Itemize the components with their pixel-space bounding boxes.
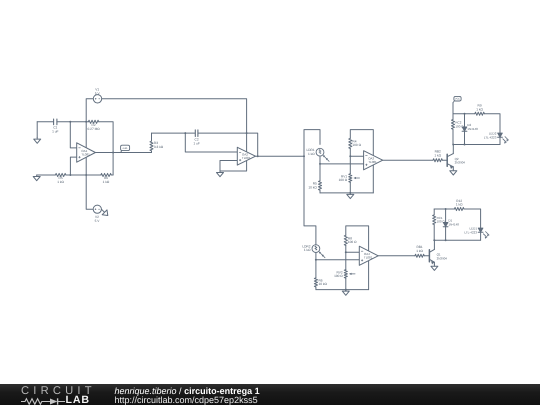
wire OA1 non-inverting input (70, 157, 76, 175)
CircuitLab logo text LAB (66, 394, 90, 405)
junction dots LED1 block (433, 208, 446, 241)
wire staple R8 top + OA4 V pins (346, 226, 369, 290)
junction dot C2 branch (184, 132, 186, 134)
wire top integrator left (152, 132, 195, 134)
wire R2 right lead down to output node (99, 122, 113, 175)
op-amp OA3 (364, 151, 383, 170)
svg-text:1 kΩ: 1 kΩ (304, 248, 311, 252)
capacitor C1 (52, 119, 58, 133)
wire RV2 to bottom (345, 278, 347, 289)
svg-text:1 kΩ: 1 kΩ (416, 249, 423, 253)
resistor RC1 vertical (433, 209, 446, 240)
svg-text:1N4148: 1N4148 (467, 127, 478, 131)
resistor R12 (454, 199, 464, 211)
photoresistor LDR2 (302, 244, 325, 257)
wire top LED1 left (434, 208, 454, 210)
resistor RC2 vertical (451, 114, 464, 145)
resistor R2 (88, 120, 101, 131)
svg-text:TL081: TL081 (242, 156, 251, 160)
junction dot bottom block5 (345, 289, 347, 291)
junction dots OA2 output (246, 132, 305, 157)
wire rail up to LDR1 (304, 130, 320, 157)
resistor R6 (101, 173, 112, 184)
svg-text:2N3904: 2N3904 (437, 256, 448, 260)
junction dot LDR2 node (315, 259, 317, 261)
wire LDR1 to plus input OA3 (320, 156, 364, 164)
svg-text:100 Ω: 100 Ω (334, 274, 343, 278)
svg-text:1 kΩ: 1 kΩ (308, 152, 315, 156)
wire LDR2 to plus input OA4 (316, 253, 359, 260)
svg-text:100 Ω: 100 Ω (348, 240, 357, 244)
svg-text:1 kΩ: 1 kΩ (456, 203, 463, 207)
resistor R8 vertical (344, 235, 357, 245)
svg-text:TL081: TL081 (364, 256, 373, 260)
transistor Q2 (447, 145, 465, 170)
wire RV1 to bottom (349, 182, 351, 193)
op-amp OA2 (237, 147, 255, 165)
potentiometer RV1 (339, 174, 360, 183)
resistor R3 vertical (150, 133, 164, 152)
svg-text:10 kΩ: 10 kΩ (308, 185, 317, 189)
svg-text:1 kΩ: 1 kΩ (476, 107, 483, 111)
wire bottom block5 (316, 289, 369, 291)
junction dots LED2 block (452, 113, 465, 146)
junction dots bottom wire (69, 174, 87, 176)
wire OA4 inverting input (346, 251, 360, 253)
svg-text:1 kΩ: 1 kΩ (434, 153, 441, 157)
svg-text:3.3 kΩ: 3.3 kΩ (154, 145, 164, 149)
CircuitLab logo text CIRCUIT (21, 385, 96, 397)
resistor RB2 (433, 150, 442, 162)
wire R6 to corner up (111, 174, 113, 176)
LED2 (484, 132, 509, 144)
junction dot LDR1 node (319, 163, 321, 165)
diode D2 (462, 114, 478, 145)
wire OA1 inverting input (70, 122, 76, 148)
wire R5 to R6 (66, 174, 101, 176)
wire staple R4 top + OA3 V pins (350, 130, 373, 193)
wire R4 to RV1 (349, 149, 351, 174)
wire OA2 inverting input (185, 133, 237, 152)
resistor R5 (55, 173, 66, 184)
svg-text:1 uF: 1 uF (193, 141, 199, 145)
resistor R5b vertical (308, 164, 321, 193)
ground G7 block5 (342, 290, 349, 296)
footer author / title line (115, 386, 260, 396)
transistor Q1 (429, 240, 447, 265)
svg-text:out1: out1 (123, 147, 129, 150)
ground G5 block3 (347, 193, 354, 199)
wire OA2 V+ pin (246, 133, 248, 152)
wire top integrator right + feedback to output (198, 133, 258, 156)
wire C1 left lead (37, 121, 53, 123)
ground G3 right of V2 (rotated) (101, 209, 107, 215)
wire RB2 to Q2 base (442, 159, 447, 161)
svg-text:TL081: TL081 (81, 152, 90, 156)
footer url line (115, 395, 258, 405)
svg-text:2N3904: 2N3904 (455, 161, 466, 165)
ground G8 below Q1 (431, 265, 438, 271)
junction dot output/feedback (112, 152, 114, 154)
resistor R4 vertical (349, 138, 362, 148)
wire top LED1 right + LED rail (464, 209, 481, 240)
resistor RB1 (415, 245, 424, 257)
svg-text:1N4148: 1N4148 (448, 222, 459, 226)
junction dot OA3 minus node (349, 155, 351, 157)
wire bottom block3 (320, 192, 373, 194)
svg-text:100 Ω: 100 Ω (352, 143, 361, 147)
capacitor C2 (193, 130, 199, 146)
wire OA2 output (256, 155, 305, 157)
wire to V2 (86, 175, 93, 209)
op-amp OA1 (77, 143, 96, 162)
wire bottom LED1 (434, 239, 480, 241)
svg-text:1 kΩ: 1 kΩ (57, 180, 64, 184)
svg-text:LTL-4223: LTL-4223 (484, 135, 497, 139)
junction dots inverting node (69, 121, 87, 123)
wire C1 right lead to R2 (inverting node) (57, 121, 88, 123)
diode D1 (443, 209, 459, 240)
ground G1 below C1 left end (34, 122, 41, 144)
svg-text:1 kΩ: 1 kΩ (103, 180, 110, 184)
wire RB1 to Q1 base (424, 255, 429, 257)
ground G4 below OA2 plus input (217, 171, 224, 177)
svg-text:10 kΩ: 10 kΩ (319, 282, 328, 286)
resistor R9 (475, 104, 485, 116)
CircuitLab logo resistor-diode squiggle (21, 397, 65, 405)
wire OA3 inverting input (350, 155, 363, 157)
svg-text:5 V: 5 V (95, 219, 101, 223)
resistor R6b vertical (314, 260, 327, 290)
wire OA2 non-inverting input + ground tie (220, 161, 247, 172)
svg-text:1 uF: 1 uF (52, 129, 58, 133)
svg-text:100 Ω: 100 Ω (339, 178, 348, 182)
junction dot OA4 minus node (345, 251, 347, 253)
wire top LED2 left (453, 113, 475, 115)
junction dot bottom block3 (349, 192, 351, 194)
wire OA1 power pins vertical (85, 122, 87, 175)
photoresistor LDR1 (306, 148, 329, 161)
ground G2 bottom left (33, 175, 40, 181)
wire OA4 output (378, 255, 415, 257)
wire rail down to LDR2 (304, 156, 316, 245)
op-amp OA4 (359, 246, 378, 265)
wire top rail from node A to OA2 V+ corner (86, 99, 246, 133)
wire top LED2 right + LED rail (484, 114, 500, 145)
flag VCC (453, 96, 461, 113)
svg-text:VCC: VCC (455, 98, 460, 101)
potentiometer RV2 (334, 270, 355, 279)
flag out1 on OA1 output (121, 145, 130, 152)
LED1 (464, 227, 489, 239)
svg-text:TL081: TL081 (368, 160, 377, 164)
wire bottom LED2 (453, 144, 500, 146)
svg-text:LTL-4223: LTL-4223 (464, 230, 477, 234)
voltage source V2 (93, 205, 101, 223)
wire OA1 output (95, 152, 151, 154)
voltage source V1 (93, 88, 101, 103)
wire bottom feedback (ground to R5) (37, 174, 56, 176)
svg-text:0.27 MΩ: 0.27 MΩ (88, 127, 101, 131)
ground G6 below Q2 (450, 169, 457, 175)
wire OA3 output (383, 159, 433, 161)
wire R8 to RV2 (345, 245, 347, 269)
